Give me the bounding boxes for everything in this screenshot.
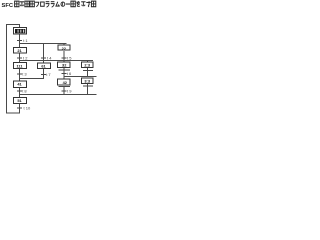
svg-text:t 2: t 2 bbox=[23, 56, 28, 61]
wire column4 segments bbox=[87, 61, 89, 63]
convergence line C left bbox=[19, 78, 44, 80]
step box 41 bbox=[13, 81, 26, 87]
svg-text:t 10: t 10 bbox=[24, 106, 31, 111]
step box 33 bbox=[82, 78, 93, 84]
svg-text:t 5: t 5 bbox=[67, 55, 72, 60]
transition t9 bbox=[62, 90, 67, 92]
step box 31 bbox=[13, 63, 26, 69]
divergence line B bbox=[19, 60, 93, 62]
initial step box S0 bbox=[14, 28, 27, 35]
caption kanji text (pseudo-glyph strokes) bbox=[15, 1, 96, 7]
wire column2 segments bbox=[43, 44, 45, 64]
divergence line A bbox=[19, 43, 67, 45]
svg-text:t 9: t 9 bbox=[67, 89, 72, 94]
wire column1 segments bbox=[19, 24, 21, 27]
step box 42 bbox=[58, 79, 70, 85]
wire bottom loop horizontal bbox=[6, 112, 20, 114]
svg-text:t 6: t 6 bbox=[67, 71, 72, 76]
step box 61 bbox=[37, 63, 50, 69]
transition t10 bbox=[17, 107, 22, 109]
step box 22 bbox=[58, 45, 70, 50]
initial step inner fill bbox=[15, 29, 25, 33]
transition t8 bbox=[17, 90, 22, 92]
svg-text:t 4: t 4 bbox=[47, 56, 52, 61]
step box 21 bbox=[13, 47, 26, 53]
transition t6 bbox=[62, 73, 67, 75]
step numbers bbox=[16, 46, 90, 103]
svg-text:t 1: t 1 bbox=[23, 38, 28, 43]
transition t5 bbox=[62, 57, 67, 59]
step box 23 bbox=[81, 62, 92, 67]
action underline col4 row3 bbox=[83, 69, 93, 71]
convergence line D bbox=[19, 94, 97, 96]
transition t2 bbox=[17, 57, 22, 59]
action underline col3 row4 bbox=[59, 86, 70, 88]
transition labels bbox=[22, 38, 72, 111]
action underline col4 row4 bbox=[83, 85, 93, 87]
step box 32 bbox=[58, 62, 71, 68]
wire top loop horizontal bbox=[6, 24, 20, 26]
transition t3 bbox=[17, 73, 22, 75]
action underline col3 row3 bbox=[59, 69, 71, 71]
transition t7 bbox=[41, 74, 46, 76]
transition t4 bbox=[41, 57, 46, 59]
transition t1 bbox=[17, 40, 22, 42]
svg-text:3:3: 3:3 bbox=[84, 78, 90, 83]
svg-text:111: 111 bbox=[16, 64, 23, 69]
wire left return rail bbox=[6, 24, 8, 114]
svg-text:t 7: t 7 bbox=[46, 72, 51, 77]
wire column3 segments bbox=[63, 44, 65, 46]
step box 51 bbox=[13, 98, 26, 104]
svg-text:t 3: t 3 bbox=[22, 72, 27, 77]
svg-text:t 8: t 8 bbox=[22, 89, 27, 94]
svg-text:SFC: SFC bbox=[2, 3, 14, 9]
svg-text:2:3: 2:3 bbox=[84, 63, 90, 68]
divergence line C right bbox=[64, 76, 97, 78]
